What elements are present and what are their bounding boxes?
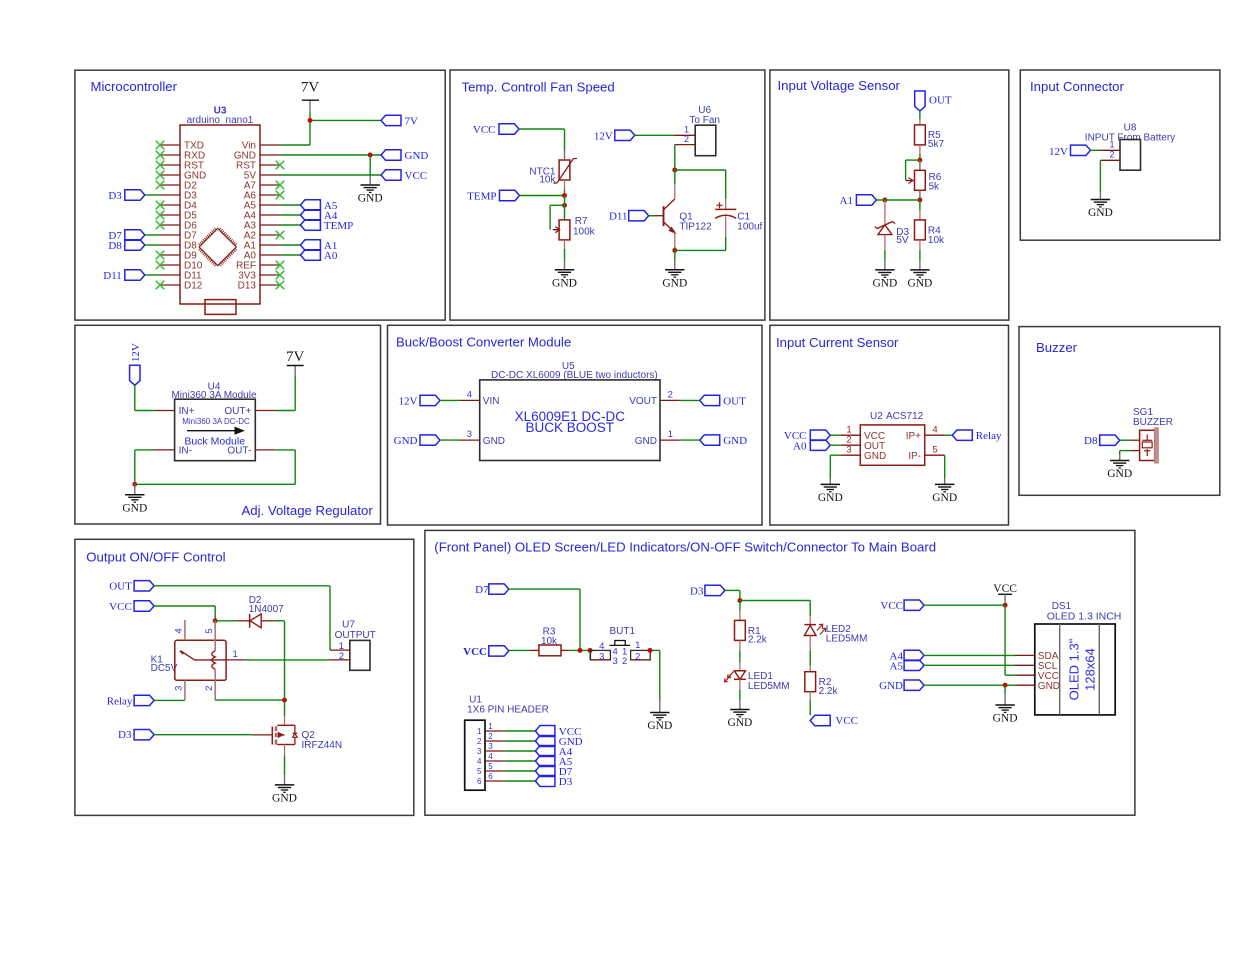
svg-text:VCC: VCC (405, 170, 428, 182)
svg-text:OUT+: OUT+ (224, 406, 251, 417)
svg-text:BUCK BOOST: BUCK BOOST (526, 420, 615, 435)
svg-text:2: 2 (339, 651, 344, 662)
svg-text:GND: GND (907, 278, 932, 290)
svg-text:128x64: 128x64 (1083, 648, 1098, 691)
svg-text:1: 1 (488, 722, 493, 731)
svg-text:D3: D3 (690, 585, 704, 597)
svg-text:INPUT From Battery: INPUT From Battery (1085, 132, 1175, 143)
svg-text:A0: A0 (324, 250, 338, 262)
svg-text:1: 1 (635, 640, 640, 651)
svg-text:D11: D11 (609, 211, 628, 223)
svg-text:VCC: VCC (473, 124, 496, 136)
svg-text:3: 3 (488, 742, 493, 751)
svg-text:100uf: 100uf (737, 221, 762, 232)
svg-text:5: 5 (204, 628, 215, 633)
svg-text:GND: GND (872, 278, 897, 290)
svg-text:VOUT: VOUT (629, 396, 657, 407)
svg-text:5V: 5V (896, 235, 909, 246)
svg-text:4: 4 (467, 389, 472, 400)
svg-text:ACS712: ACS712 (886, 411, 924, 422)
svg-text:GND: GND (272, 793, 297, 805)
svg-text:GND: GND (552, 277, 577, 289)
svg-text:A5: A5 (890, 660, 904, 672)
svg-text:7V: 7V (405, 115, 419, 127)
svg-text:2.2k: 2.2k (748, 634, 768, 645)
svg-text:A0: A0 (793, 440, 807, 452)
svg-text:2: 2 (488, 732, 493, 741)
svg-text:A1: A1 (840, 195, 853, 207)
svg-text:IP-: IP- (908, 451, 921, 462)
svg-text:LED5MM: LED5MM (826, 634, 868, 645)
svg-text:3: 3 (477, 747, 482, 756)
svg-text:1X6 PIN HEADER: 1X6 PIN HEADER (467, 705, 549, 716)
svg-text:GND: GND (818, 492, 843, 504)
svg-text:GND: GND (1038, 681, 1060, 692)
svg-text:4: 4 (488, 752, 493, 761)
svg-text:Buck/Boost Converter Module: Buck/Boost Converter Module (396, 335, 571, 350)
svg-text:D3: D3 (108, 190, 122, 202)
svg-text:12V: 12V (594, 130, 613, 142)
svg-text:3: 3 (599, 651, 604, 662)
svg-text:GND: GND (864, 451, 886, 462)
svg-text:Mini360 3A DC-DC: Mini360 3A DC-DC (182, 417, 250, 426)
svg-text:arduino_nano1: arduino_nano1 (187, 115, 254, 126)
svg-text:OUT: OUT (109, 581, 132, 593)
svg-text:GND: GND (483, 436, 505, 447)
svg-text:Input Current Sensor: Input Current Sensor (776, 335, 899, 350)
svg-text:6: 6 (488, 772, 493, 781)
svg-text:Relay: Relay (976, 430, 1002, 442)
svg-text:IP+: IP+ (906, 431, 921, 442)
svg-text:12V: 12V (1049, 146, 1068, 158)
svg-text:TEMP: TEMP (324, 220, 353, 232)
svg-text:6: 6 (477, 777, 482, 786)
svg-text:GND: GND (635, 436, 657, 447)
svg-text:To Fan: To Fan (689, 115, 720, 126)
svg-text:LED5MM: LED5MM (748, 681, 790, 692)
svg-text:2: 2 (477, 737, 482, 746)
svg-text:IN+: IN+ (179, 406, 195, 417)
svg-text:5: 5 (488, 762, 493, 771)
svg-text:DC5V: DC5V (151, 663, 178, 674)
svg-text:5k7: 5k7 (928, 139, 945, 150)
svg-text:D11: D11 (103, 270, 122, 282)
svg-text:Output ON/OFF Control: Output ON/OFF Control (86, 549, 225, 564)
svg-text:1: 1 (668, 429, 673, 440)
svg-text:4: 4 (932, 424, 937, 435)
svg-text:2: 2 (1109, 150, 1114, 160)
svg-text:GND: GND (1088, 207, 1113, 219)
svg-text:4: 4 (477, 757, 482, 766)
svg-text:Input Connector: Input Connector (1030, 79, 1124, 94)
svg-text:GND: GND (405, 150, 429, 162)
svg-text:GND: GND (727, 717, 752, 729)
svg-text:1N4007: 1N4007 (249, 604, 284, 615)
svg-text:VCC: VCC (835, 715, 858, 727)
svg-text:GND: GND (1107, 468, 1132, 480)
svg-text:3: 3 (612, 656, 617, 667)
svg-text:VCC: VCC (109, 601, 132, 613)
svg-text:2: 2 (622, 656, 627, 667)
svg-text:2.2k: 2.2k (819, 686, 839, 697)
svg-text:D3: D3 (559, 776, 573, 788)
svg-text:1: 1 (1109, 140, 1114, 150)
svg-text:4: 4 (174, 628, 185, 633)
svg-text:2: 2 (204, 686, 215, 691)
svg-text:GND: GND (122, 502, 147, 514)
svg-text:3: 3 (846, 444, 851, 455)
svg-text:5: 5 (477, 767, 482, 776)
svg-text:GND: GND (647, 720, 672, 732)
svg-text:2: 2 (684, 134, 689, 144)
svg-text:Microcontroller: Microcontroller (91, 79, 178, 94)
svg-text:D7: D7 (475, 584, 489, 596)
svg-text:Buzzer: Buzzer (1036, 340, 1078, 355)
svg-text:TIP122: TIP122 (679, 221, 712, 232)
svg-text:Buck Module: Buck Module (184, 436, 245, 448)
svg-text:(Front Panel) OLED Screen/LED: (Front Panel) OLED Screen/LED Indicators… (434, 540, 936, 555)
svg-text:U2: U2 (870, 411, 883, 422)
svg-text:VCC: VCC (880, 600, 903, 612)
svg-text:5k: 5k (929, 182, 941, 193)
svg-text:1: 1 (477, 727, 482, 736)
svg-text:VCC: VCC (463, 646, 487, 658)
svg-text:12V: 12V (399, 396, 418, 408)
svg-text:BUZZER: BUZZER (1133, 417, 1173, 428)
svg-text:IRFZ44N: IRFZ44N (302, 740, 343, 751)
svg-text:GND: GND (879, 680, 903, 692)
svg-text:Adj. Voltage Regulator: Adj. Voltage Regulator (242, 503, 374, 518)
svg-text:2: 2 (635, 651, 640, 662)
svg-text:2: 2 (668, 389, 673, 400)
svg-text:OUTPUT: OUTPUT (335, 630, 376, 641)
svg-text:GND: GND (932, 492, 957, 504)
svg-text:GND: GND (394, 435, 418, 447)
svg-text:10k: 10k (539, 175, 556, 186)
svg-text:7V: 7V (286, 349, 305, 365)
svg-text:10k: 10k (541, 636, 558, 647)
svg-text:100k: 100k (573, 226, 596, 237)
svg-text:GND: GND (358, 193, 383, 205)
svg-text:D8: D8 (108, 240, 122, 252)
svg-text:D8: D8 (1084, 435, 1098, 447)
svg-text:7V: 7V (301, 80, 320, 96)
svg-text:R7: R7 (575, 216, 588, 227)
svg-text:U7: U7 (342, 619, 355, 630)
svg-text:VCC: VCC (993, 583, 1017, 595)
svg-text:1: 1 (233, 649, 238, 660)
svg-text:BUT1: BUT1 (610, 626, 636, 637)
svg-text:TEMP: TEMP (467, 191, 496, 203)
svg-text:VIN: VIN (483, 396, 500, 407)
svg-text:Input Voltage Sensor: Input Voltage Sensor (778, 78, 901, 93)
svg-text:10k: 10k (928, 235, 945, 246)
svg-text:GND: GND (723, 435, 747, 447)
svg-text:OLED 1.3": OLED 1.3" (1067, 638, 1082, 700)
svg-text:OUT: OUT (723, 395, 746, 407)
svg-text:12V: 12V (130, 343, 142, 362)
svg-text:5: 5 (932, 444, 937, 455)
svg-text:3: 3 (174, 686, 185, 691)
svg-text:3: 3 (467, 429, 472, 440)
svg-text:GND: GND (993, 713, 1018, 725)
svg-text:Relay: Relay (107, 696, 133, 708)
svg-text:OUT: OUT (929, 95, 952, 107)
svg-text:Temp. Controll Fan Speed: Temp. Controll Fan Speed (462, 79, 615, 94)
svg-text:GND: GND (662, 277, 687, 289)
svg-text:D12: D12 (184, 281, 203, 292)
svg-text:OLED 1.3 INCH: OLED 1.3 INCH (1047, 610, 1122, 622)
svg-text:D13: D13 (238, 281, 257, 292)
svg-text:D3: D3 (118, 729, 132, 741)
